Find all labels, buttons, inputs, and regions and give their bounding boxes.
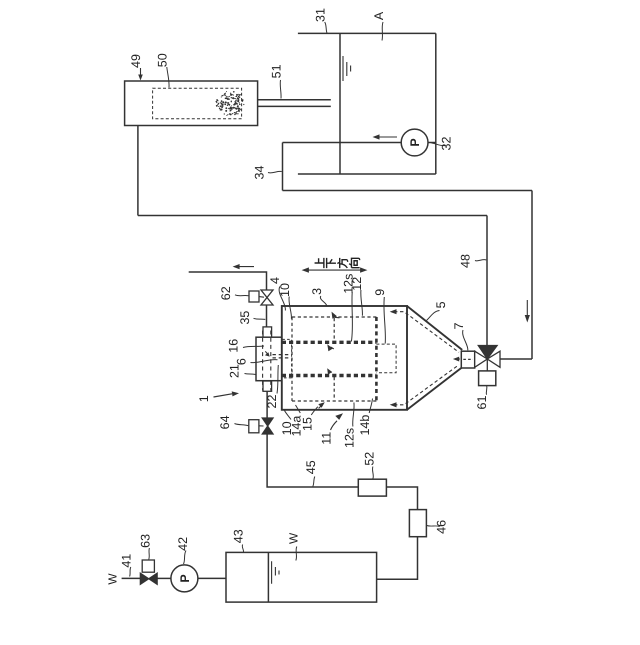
- pump 32 suction pipe: [283, 142, 402, 144]
- svg-text:61: 61: [475, 396, 489, 410]
- screen middle divider dashed bottom: [333, 377, 335, 400]
- label 12s bottom leader: [353, 403, 354, 427]
- label 3 leader: [320, 296, 327, 307]
- feed tube 6 lower wall thick dashed: [282, 374, 377, 377]
- trapped particles cluster: [216, 91, 245, 116]
- label 22 leader: [277, 365, 278, 394]
- svg-text:10: 10: [278, 283, 292, 297]
- tank A bottom wall: [298, 173, 436, 175]
- label 52 leader: [371, 467, 374, 479]
- label 46 leader: [427, 526, 440, 527]
- pump 32 outlet stub: [428, 142, 436, 144]
- label 10 bottom leader: [285, 411, 292, 420]
- direction text up-down (kanji drawn as paths): [315, 258, 360, 268]
- svg-text:45: 45: [304, 460, 318, 474]
- apparatus label 1 arrow: [214, 394, 233, 397]
- svg-text:9: 9: [373, 289, 387, 296]
- label 41 leader: [130, 567, 131, 577]
- valve actuator stem: [486, 359, 488, 371]
- label 12 top leader: [361, 290, 363, 316]
- feed tube 6 upper wall thick dashed: [282, 341, 377, 344]
- pipe below coupling 22: [266, 391, 268, 418]
- pipe 46 to tank 43: [377, 537, 418, 580]
- svg-text:P: P: [408, 138, 422, 146]
- label 12s top leader: [351, 292, 352, 342]
- label 10 top leader: [289, 297, 291, 319]
- cone bottom dashed flow line: [394, 365, 459, 405]
- pipe 48 downcomer to valve top: [486, 216, 488, 346]
- label 61 leader: [485, 386, 488, 395]
- flange internal dashed passages: [263, 331, 271, 391]
- three-way valve top triangle filled: [478, 346, 497, 360]
- flow arrow on downcomer: [526, 300, 528, 317]
- label 4 leader: [279, 287, 285, 311]
- pipe 34 horizontal run: [283, 190, 533, 192]
- coupling 35 box: [263, 327, 272, 337]
- svg-text:64: 64: [218, 415, 232, 429]
- svg-text:W: W: [286, 532, 300, 544]
- filter tube 50 dashed box: [153, 88, 242, 119]
- pipe 51 double line: [258, 100, 331, 107]
- svg-text:62: 62: [219, 286, 233, 300]
- flow arrow into vessel at nozzle: [455, 358, 460, 360]
- kanji ue: [315, 258, 324, 268]
- label 63 leader: [148, 548, 151, 560]
- label 7 leader: [463, 330, 468, 350]
- svg-text:41: 41: [120, 554, 134, 568]
- arrow for 49: [140, 68, 142, 76]
- label 31 leader: [325, 22, 327, 33]
- coupling 22 box: [263, 381, 272, 391]
- nozzle box 7: [461, 351, 474, 368]
- drain pipe from valve 64: [267, 434, 358, 487]
- flange 16 body: [256, 337, 282, 381]
- svg-text:49: 49: [129, 54, 143, 68]
- label 35 leader: [254, 318, 266, 319]
- vessel cone bottom slant: [407, 367, 462, 410]
- vent flow arrow: [237, 266, 254, 268]
- svg-text:35: 35: [238, 311, 252, 325]
- label 50 leader: [167, 67, 169, 88]
- tank A partition: [339, 33, 341, 174]
- liquid level symbol tank 43: [272, 561, 279, 584]
- label 51 leader: [279, 80, 282, 99]
- pipe 34 vertical from pump: [282, 143, 284, 191]
- pipe stub to valve right port: [500, 358, 532, 360]
- three-way valve left triangle: [475, 351, 488, 367]
- label 21 leader: [245, 374, 256, 375]
- svg-text:5: 5: [434, 301, 448, 308]
- svg-text:11: 11: [319, 432, 333, 445]
- pipe 48 horizontal run: [138, 215, 487, 217]
- actuator 61 box: [479, 371, 496, 386]
- cone bottom flow arrowhead: [390, 402, 397, 407]
- label 14a leader: [296, 405, 301, 413]
- svg-text:7: 7: [452, 322, 466, 329]
- svg-text:4: 4: [268, 277, 282, 284]
- valve 62 body: [261, 290, 273, 305]
- chamber 49 outer box: [125, 81, 258, 126]
- svg-text:46: 46: [434, 520, 448, 534]
- label 9 leader: [384, 297, 385, 344]
- svg-text:A: A: [372, 11, 386, 20]
- svg-text:12: 12: [350, 277, 364, 291]
- svg-text:6: 6: [234, 358, 248, 365]
- svg-text:21: 21: [228, 364, 242, 378]
- kanji shita: [327, 258, 336, 268]
- svg-text:W: W: [106, 573, 120, 585]
- svg-text:12s: 12s: [342, 428, 356, 448]
- label 5 leader: [427, 311, 440, 321]
- direction double arrow: [307, 269, 363, 271]
- screen middle divider dashed top: [333, 318, 335, 341]
- label 15 leader: [311, 407, 318, 415]
- valve 63 body filled: [140, 573, 157, 584]
- label A leader: [382, 22, 383, 41]
- inlet port dashed box: [282, 339, 291, 378]
- valve 64 body filled: [262, 418, 273, 434]
- label 16 leader: [243, 346, 264, 348]
- pump 32 circle: [401, 129, 428, 156]
- svg-text:15: 15: [300, 417, 314, 431]
- end plate 9 dashed box: [376, 344, 396, 373]
- tank 43 body: [226, 552, 377, 602]
- vent pipe at vessel top: [189, 272, 267, 290]
- svg-text:22: 22: [265, 395, 279, 409]
- svg-text:32: 32: [440, 137, 454, 151]
- pump 42 circle: [171, 565, 198, 592]
- label 45 leader: [313, 477, 315, 487]
- tank 43 partition: [267, 552, 269, 602]
- svg-text:3: 3: [310, 288, 324, 295]
- flow arrow upper screen: [335, 316, 340, 319]
- flow arrow at upper tube wall: [331, 347, 334, 349]
- pipe 52 to 46: [386, 487, 417, 510]
- flow meter 52 box: [358, 479, 386, 496]
- pipe valve62 to coupling 35: [266, 305, 268, 327]
- tank A right wall: [435, 33, 437, 174]
- label 42 leader: [184, 551, 187, 565]
- cone top dashed flow line: [394, 312, 459, 353]
- svg-text:43: 43: [232, 529, 246, 543]
- flow arrow at pump 32: [377, 136, 397, 138]
- svg-text:34: 34: [252, 166, 266, 180]
- valve 63 actuator box: [142, 560, 154, 572]
- label 48 leader: [475, 260, 486, 261]
- svg-text:16: 16: [227, 339, 241, 353]
- label 14b leader: [369, 399, 372, 414]
- svg-text:1: 1: [197, 395, 211, 402]
- pipe 34 right downcomer: [531, 191, 533, 360]
- vessel 5 body: [282, 306, 407, 410]
- label 43 leader: [242, 545, 243, 553]
- tube mouth dashed lines: [273, 355, 292, 358]
- label 11 leader with arrow: [331, 421, 338, 430]
- pipe pump 42 to tank 43: [198, 577, 226, 579]
- inlet W pipe: [122, 577, 141, 579]
- valve 64 actuator stem: [259, 425, 264, 427]
- valve 64 actuator box: [249, 420, 259, 433]
- tank A top wall: [298, 32, 436, 34]
- svg-text:P: P: [178, 574, 192, 582]
- label 62 leader: [235, 295, 249, 296]
- feed arrow in flange: [265, 351, 267, 354]
- valve 62 actuator box: [249, 291, 259, 302]
- pipe 48 vertical from chamber 49: [137, 126, 139, 216]
- pipe valve 63 to pump 42: [157, 577, 171, 579]
- liquid level symbol tank A: [343, 56, 351, 81]
- svg-text:14b: 14b: [358, 415, 372, 436]
- svg-text:50: 50: [156, 53, 170, 67]
- label W tank leader: [296, 547, 297, 561]
- label 64 leader: [235, 424, 249, 426]
- svg-text:51: 51: [269, 64, 283, 78]
- kanji mukai: [349, 258, 360, 267]
- svg-text:52: 52: [362, 452, 376, 466]
- flow arrow lower screen: [319, 406, 322, 409]
- flow arrow at lower tube wall: [329, 371, 331, 373]
- cone top flow arrowhead: [390, 309, 397, 314]
- nozzle 7 dashed passage: [463, 358, 473, 360]
- kanji hou: [337, 258, 347, 268]
- label 32 leader: [432, 143, 446, 146]
- svg-text:31: 31: [314, 8, 328, 22]
- screen right edge heavy dashed: [375, 317, 378, 401]
- label 34 leader: [268, 171, 282, 173]
- valve 62 actuator stem: [259, 296, 264, 299]
- svg-text:63: 63: [139, 534, 153, 548]
- filter 46 box: [409, 510, 426, 537]
- filter screen 12 dashed rect: [292, 317, 376, 401]
- svg-text:48: 48: [459, 254, 473, 268]
- label 6 leader: [251, 360, 278, 363]
- svg-text:42: 42: [176, 537, 190, 551]
- vessel cone top slant: [407, 306, 462, 350]
- three-way valve right triangle: [487, 351, 500, 367]
